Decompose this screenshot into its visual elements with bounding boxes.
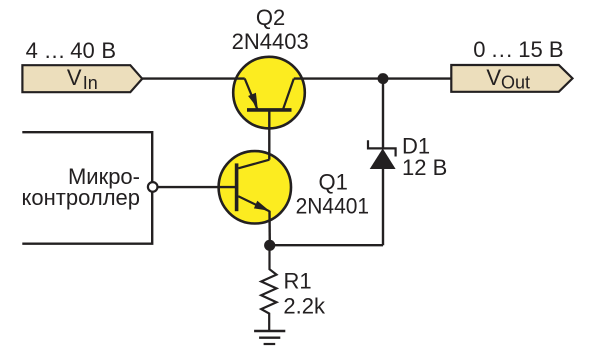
svg-text:Q1: Q1	[319, 169, 348, 194]
svg-text:12 В: 12 В	[402, 155, 447, 180]
svg-text:контроллер: контроллер	[22, 185, 140, 210]
svg-text:2N4403: 2N4403	[232, 29, 309, 54]
svg-text:Out: Out	[501, 73, 530, 93]
svg-text:V: V	[67, 65, 82, 90]
svg-text:R1: R1	[284, 269, 312, 294]
svg-text:Q2: Q2	[256, 5, 285, 30]
svg-text:V: V	[486, 65, 501, 90]
svg-text:In: In	[83, 73, 98, 93]
svg-text:2.2k: 2.2k	[283, 294, 326, 319]
svg-text:2N4401: 2N4401	[296, 194, 370, 219]
